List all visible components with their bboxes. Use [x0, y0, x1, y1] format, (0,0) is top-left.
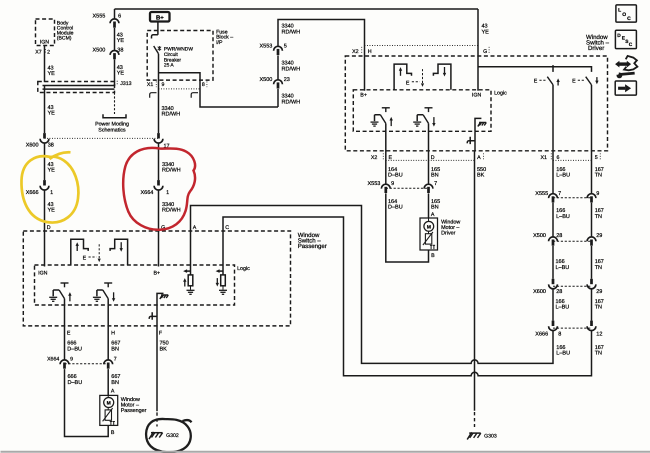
svg-text:RD/WH: RD/WH — [162, 168, 181, 174]
wire label 43 YE — [48, 162, 56, 174]
svg-text:B+: B+ — [360, 93, 367, 99]
X1 pin 8 terminal hook — [191, 93, 198, 98]
X2 bottom connector face dotted line — [386, 159, 474, 161]
svg-text:X1: X1 — [147, 82, 153, 88]
wire 750 BK inside passenger switch — [156, 305, 158, 326]
window motor driver box — [420, 218, 438, 250]
wire label 666 D-BU — [68, 374, 83, 386]
page bottom border line — [1, 451, 650, 453]
connector X600 row labels pins 38 and 17 — [26, 143, 170, 150]
svg-text:RD/WH: RD/WH — [282, 29, 301, 35]
connector X500 pin 38 labels — [93, 48, 124, 54]
svg-text:6: 6 — [118, 14, 121, 20]
passenger window lock contact — [149, 312, 157, 319]
svg-text:X500: X500 — [260, 77, 273, 83]
junction branch to pin 8 — [159, 73, 279, 107]
svg-text:PWR/WNDW: PWR/WNDW — [164, 47, 193, 53]
svg-text:E: E — [406, 80, 410, 86]
svg-text:YE: YE — [482, 29, 490, 35]
wire label 3340 RD/WH — [282, 94, 301, 106]
passenger up contact arrow — [76, 242, 79, 251]
wire label 43 YE — [482, 24, 490, 36]
BCM name label — [57, 21, 74, 42]
svg-text:D: D — [617, 33, 621, 39]
driver switch X1 bottom labels 6 5 — [541, 153, 601, 160]
wire label 43 YE — [48, 105, 56, 117]
window switch passenger name label — [298, 232, 327, 250]
fuse block label — [216, 29, 233, 46]
wire label 166 L-BU — [556, 345, 570, 357]
connector X500 pin 23 labels — [260, 77, 290, 83]
wire 750 BK passenger switch F to ground G302 — [156, 326, 158, 411]
passenger resistor A ground link — [190, 286, 192, 290]
inline connector X666 pin 8 — [549, 321, 558, 331]
svg-text:B: B — [111, 430, 115, 436]
passenger transistor 2 ground — [93, 297, 101, 301]
svg-text:D–BU: D–BU — [67, 346, 82, 352]
passenger motor terminal A label — [111, 388, 115, 394]
wire 43 YE to passenger switch D terminal — [44, 189, 46, 266]
svg-text:L: L — [618, 8, 621, 14]
svg-text:1: 1 — [50, 190, 53, 196]
splice pack J313 dashed box — [38, 82, 115, 93]
svg-text:X666: X666 — [26, 190, 39, 196]
driver output transistor 2 — [417, 108, 432, 124]
svg-text:E: E — [534, 79, 538, 85]
inline connector X553 pin 7 — [424, 184, 433, 193]
wire label 164 D-BU — [388, 199, 403, 211]
circuit breaker label PWR/WNDW 25 A — [164, 47, 193, 69]
svg-text:IGN: IGN — [472, 93, 482, 99]
passenger transistor 1 ground — [49, 297, 57, 301]
wire 167 TN driver switch pin 5 to X555 — [591, 85, 593, 194]
svg-text:7: 7 — [114, 357, 117, 363]
wire 3340 RD/WH to passenger switch G terminal — [158, 189, 160, 266]
svg-text:9: 9 — [162, 82, 165, 88]
wire 667 BN passenger switch H to X664 — [107, 299, 109, 361]
svg-text:YE: YE — [48, 111, 56, 117]
BCM IGN output label — [40, 40, 49, 46]
dashed ground lead — [474, 412, 476, 427]
svg-text:Breaker: Breaker — [164, 57, 181, 63]
svg-text:X555: X555 — [535, 191, 548, 197]
wire 667 BN X664 to passenger motor A — [107, 369, 109, 395]
svg-text:X600: X600 — [533, 289, 546, 295]
driver motor terminal B label — [431, 253, 435, 259]
wire 166 L-BU X555 to X500 — [552, 203, 554, 237]
wire 164 D-BU X553 to driver motor B — [386, 193, 429, 262]
wire label 3340 RD/WH — [162, 202, 181, 214]
inline connector X666 pin 1 — [40, 180, 49, 190]
svg-text:BK: BK — [477, 173, 485, 179]
svg-text:X2: X2 — [371, 155, 378, 161]
svg-text:C: C — [629, 42, 633, 48]
passenger switch IGN node label — [38, 271, 48, 277]
wire 43 YE between X555 and X500 — [114, 28, 116, 51]
svg-text:X600: X600 — [26, 143, 39, 149]
connector X555 pin 6 labels — [93, 14, 122, 20]
svg-text:E: E — [67, 330, 71, 336]
passenger sense resistor C left arrow — [216, 269, 223, 273]
connector X553 row labels pins 9 7 — [368, 181, 438, 187]
wire 666 D-BU X664 to passenger motor B — [65, 369, 109, 436]
reference label Power Moding Schematics — [95, 122, 129, 134]
connector X553 pin 5 labels — [260, 44, 287, 50]
svg-text:X500: X500 — [533, 233, 546, 239]
svg-text:BK: BK — [160, 346, 168, 352]
X555 connector pair dashed link — [553, 197, 592, 199]
X553 connector pair dashed link — [386, 187, 429, 189]
wire 550 BK inside driver switch — [474, 131, 476, 151]
svg-text:7: 7 — [434, 181, 437, 187]
svg-text:Driver: Driver — [441, 231, 456, 237]
splice pack J313 label — [117, 81, 131, 87]
X664 connector pair dashed link — [65, 363, 109, 365]
wire label 167 TN — [595, 299, 604, 311]
BCM connector X7 pin 2 labels — [35, 49, 50, 55]
svg-text:D: D — [47, 225, 51, 231]
wire label 165 BN — [431, 167, 440, 179]
repair procedure icon — [615, 56, 637, 78]
wire 166 L-BU X500 to X600 — [552, 246, 554, 279]
svg-text:C: C — [225, 225, 229, 231]
svg-text:L–BU: L–BU — [556, 173, 570, 179]
driver output transistor 1 — [375, 108, 390, 124]
wire 43 YE top feed from X555 to driver switch G terminal — [115, 8, 479, 10]
passenger logic chassis ground — [160, 295, 168, 299]
svg-text:H: H — [368, 49, 372, 55]
svg-text:Driver: Driver — [588, 45, 604, 52]
wire label 3340 RD/WH — [162, 162, 181, 174]
wire 165 BN driver switch D to X553 — [428, 123, 430, 184]
svg-text:D–BU: D–BU — [388, 173, 403, 179]
J313 bus bar upper — [43, 85, 115, 87]
svg-text:9: 9 — [596, 191, 599, 197]
wire label 166 L-BU — [556, 167, 570, 179]
ground G303 label — [484, 434, 497, 440]
passenger resistor C ground link — [222, 286, 224, 290]
inline connector X500 pin 23 — [274, 80, 283, 89]
svg-text:RD/WH: RD/WH — [162, 112, 181, 118]
passenger actuator dashed travel arrow — [98, 244, 101, 262]
inline connector X500 pin 29 — [587, 237, 596, 246]
inline connector X664 pin 7 — [104, 360, 113, 369]
wire label 3340 RD/WH — [162, 106, 181, 118]
inline connector X664 pin 1 — [154, 180, 163, 190]
inline connector X500 pin 28 — [549, 237, 558, 246]
svg-text:BN: BN — [431, 205, 439, 211]
driver switch X2 top connector labels H and G — [352, 47, 489, 55]
svg-text:B+: B+ — [156, 14, 164, 21]
svg-text:5: 5 — [284, 44, 287, 50]
svg-text:RD/WH: RD/WH — [162, 208, 181, 214]
svg-text:E: E — [572, 79, 576, 85]
svg-text:29: 29 — [596, 289, 602, 295]
X500 connector pair dashed link — [553, 240, 592, 242]
passenger switch B+ node label — [154, 271, 161, 277]
black pen loop around ground G302 — [146, 419, 191, 452]
forward arrow icon box — [615, 81, 636, 95]
passenger down contact symbol — [110, 239, 128, 265]
wire 166 L-BU X600 to X666 — [552, 288, 554, 321]
window motor passenger box — [100, 395, 118, 425]
svg-text:9: 9 — [70, 357, 73, 363]
svg-text:X553: X553 — [368, 181, 381, 187]
express contact 1 actuator E — [534, 79, 547, 85]
passenger motor terminal B label — [111, 430, 115, 436]
circuit breaker blade — [154, 46, 159, 54]
connector X555 row labels pins 7 9 — [535, 191, 599, 197]
driver logic ground chain corner — [475, 118, 481, 131]
svg-text:O: O — [622, 12, 626, 18]
fuse block I/P dashed box — [147, 31, 213, 81]
svg-text:YE: YE — [48, 208, 56, 214]
wire label 167 TN — [595, 208, 604, 220]
connector X666 pin 1 labels — [26, 190, 53, 196]
svg-text:23: 23 — [284, 77, 290, 83]
passenger switch bottom terminal labels E H F — [67, 330, 163, 336]
X600 connector pair dashed link — [553, 285, 592, 287]
wire 43 YE from J313 to X600 — [44, 86, 46, 134]
passenger motor brush contacts — [110, 422, 115, 425]
svg-text:TN: TN — [595, 214, 602, 220]
wire 43 YE X600 to X666 — [44, 142, 46, 180]
wire label 167 TN — [595, 259, 604, 271]
svg-text:8: 8 — [202, 82, 205, 88]
svg-text:D–BU: D–BU — [68, 380, 83, 386]
wire 43 YE from BCM X7-2 to J313 — [44, 46, 46, 83]
express contact 2 down arrow — [595, 77, 598, 84]
battery positive voltage tag B+ — [150, 12, 170, 22]
svg-text:2: 2 — [47, 50, 50, 56]
ground G303 chassis symbol — [467, 432, 481, 439]
X2 top connector face dotted line — [365, 45, 479, 47]
svg-text:YE: YE — [117, 71, 125, 77]
svg-text:BN: BN — [111, 380, 119, 386]
LOC icon box — [616, 5, 637, 22]
inline connector X666 pin 12 — [587, 321, 596, 331]
svg-text:L–BU: L–BU — [556, 305, 570, 311]
express contact 1 up arrow — [556, 78, 559, 85]
passenger resistor C down arrow — [216, 278, 219, 286]
svg-text:9: 9 — [391, 181, 394, 187]
passenger up contact symbol — [71, 239, 88, 265]
wire label 550 BK — [477, 167, 486, 179]
passenger resistor A ground — [187, 290, 195, 294]
driver switch logic dashed box — [353, 90, 491, 132]
svg-text:Logic: Logic — [237, 266, 250, 272]
driver motor symbol — [424, 221, 434, 231]
svg-text:RD/WH: RD/WH — [282, 66, 301, 72]
wire label 667 BN — [111, 374, 120, 386]
window switch driver dashed outline — [345, 56, 607, 151]
window switch driver name label — [586, 34, 610, 52]
passenger resistor C ground — [219, 290, 227, 294]
svg-text:G302: G302 — [166, 433, 179, 439]
svg-text:1: 1 — [166, 190, 169, 196]
svg-text:Passenger: Passenger — [298, 243, 327, 250]
wire 3340 RD/WH breaker output to fuse block pin 9 — [158, 54, 160, 133]
wire label 167 TN — [595, 345, 604, 357]
passenger motor symbol — [104, 398, 114, 408]
svg-text:YE: YE — [48, 71, 56, 77]
wire 166 L-BU driver switch pin 6 to X555 — [552, 85, 554, 194]
express contact 1 blade — [547, 77, 553, 85]
svg-text:Logic: Logic — [494, 91, 507, 97]
wire label 43 YE — [117, 32, 125, 44]
X600 harness dotted link — [45, 137, 159, 139]
svg-text:X500: X500 — [93, 48, 106, 54]
svg-text:A: A — [111, 388, 115, 394]
passenger switch terminal labels D G A C — [47, 225, 230, 231]
driver window lock contact — [467, 137, 475, 144]
wire label 167 TN — [595, 167, 604, 179]
svg-text:TN: TN — [595, 265, 602, 271]
driver up contact symbol — [394, 64, 411, 90]
svg-text:TN: TN — [595, 173, 602, 179]
wire 43 YE from X500 to J313 splice — [114, 60, 116, 87]
inline connector X555 pin 7 — [549, 194, 558, 203]
window switch passenger dashed outline — [23, 231, 290, 326]
driver actuator dashed travel arrow — [421, 69, 424, 87]
svg-text:M: M — [427, 225, 431, 231]
J313 bus bar lower — [43, 88, 115, 90]
connector X664 row labels pins 9 7 — [47, 357, 117, 363]
svg-text:(BCM): (BCM) — [57, 36, 72, 42]
driver switch IGN node label — [472, 93, 482, 99]
driver motor thermal protector — [423, 232, 433, 245]
wire label 166 L-BU — [556, 299, 570, 311]
svg-text:L–BU: L–BU — [556, 351, 570, 357]
passenger resistor A up arrow — [183, 278, 186, 286]
wire 43 YE down to driver switch IGN — [477, 9, 479, 91]
svg-text:X1: X1 — [541, 155, 548, 161]
driver down contact arrow — [443, 67, 446, 77]
wire label 164 D-BU — [388, 167, 403, 179]
driver down contact symbol — [433, 64, 451, 90]
svg-text:A: A — [477, 155, 481, 161]
driver transistor 1 up arrow — [390, 117, 393, 126]
express contact 1 stub — [552, 65, 554, 72]
X1 connector face dotted line — [159, 88, 201, 90]
driver switch supply feed wire — [478, 67, 592, 72]
passenger logic ground chain corner — [157, 293, 164, 305]
svg-text:38: 38 — [48, 143, 54, 149]
svg-text:I/P: I/P — [216, 40, 223, 46]
driver switch X2 bottom labels E D A — [371, 153, 484, 160]
DESC icon box — [615, 30, 636, 48]
svg-text:YE: YE — [117, 38, 125, 44]
driver transistor 1 ground — [371, 122, 379, 126]
passenger output transistor 2 — [97, 283, 112, 299]
passenger transistor 2 down arrow — [112, 292, 115, 302]
passenger logic label — [237, 266, 250, 272]
passenger motor link wires — [107, 395, 109, 410]
svg-text:Circuit: Circuit — [164, 52, 178, 58]
driver logic label — [494, 91, 507, 97]
svg-text:25 A: 25 A — [164, 63, 175, 69]
svg-text:TN: TN — [595, 305, 602, 311]
window motor passenger name label — [121, 397, 147, 414]
driver up contact arrow — [399, 67, 402, 76]
wire 3340 RD/WH riser to driver switch B+ (X2-H) — [278, 20, 365, 108]
svg-text:X666: X666 — [535, 331, 548, 337]
wire label 750 BK — [160, 341, 169, 353]
svg-text:X553: X553 — [260, 44, 273, 50]
yellow highlighter loop around X666 connector — [21, 152, 78, 222]
wire label 166 L-BU — [556, 208, 570, 220]
wire 166 L-BU X666 to passenger switch A with hop over 550 BK — [191, 206, 554, 364]
connector X664 pin 1 labels — [141, 190, 170, 196]
driver contact actuator E dashed — [406, 80, 420, 86]
inline connector X600 pin 29 — [587, 279, 596, 289]
wire 167 TN X600 to X666 — [591, 288, 593, 321]
express contact 2 actuator E — [572, 79, 585, 85]
circuit breaker top contact hook — [151, 35, 157, 39]
svg-text:28: 28 — [556, 289, 562, 295]
inline connector X600 pin 17 — [154, 133, 163, 143]
X666 connector pair dashed link — [553, 327, 592, 329]
off-page bracket — [103, 114, 126, 118]
red pen loop around X664 connector — [123, 148, 195, 230]
wire label 667 BN — [111, 341, 120, 353]
wire from B+ tag into fuse block — [157, 22, 159, 35]
driver motor terminal A label — [431, 212, 435, 218]
driver logic chassis ground — [478, 122, 486, 126]
svg-text:X2: X2 — [352, 49, 359, 55]
X1 bottom connector face dotted line — [553, 159, 592, 161]
connector X666 row labels pins 8 12 — [535, 331, 602, 337]
driver transistor 2 ground — [413, 122, 421, 126]
svg-text:X555: X555 — [93, 14, 106, 20]
svg-text:B: B — [431, 253, 435, 259]
dashed reference wire to power moding schematics — [114, 93, 116, 115]
wire 167 TN X500 to X600 — [591, 246, 593, 279]
driver motor link wires — [428, 218, 430, 234]
body control module (BCM) dashed box — [36, 19, 55, 46]
svg-text:X664: X664 — [47, 357, 59, 363]
svg-text:X7: X7 — [35, 50, 41, 56]
wire 43 YE from top line down to X555 connector — [114, 9, 116, 19]
inline connector X555 pin 6 — [110, 19, 119, 28]
svg-text:M: M — [107, 401, 111, 407]
svg-text:BN: BN — [431, 173, 439, 179]
svg-text:E: E — [83, 256, 87, 262]
X1 pin 9 terminal hook — [150, 93, 157, 98]
passenger transistor 1 up arrow — [68, 292, 71, 301]
dashed ground lead G302 — [156, 412, 158, 426]
passenger switch logic dashed box — [35, 265, 235, 305]
wire label 3340 RD/WH — [282, 61, 301, 73]
wire 167 TN X555 to X500 — [591, 203, 593, 237]
inline connector X500 pin 38 — [110, 51, 119, 60]
svg-text:Schematics: Schematics — [98, 127, 126, 133]
svg-text:J313: J313 — [120, 81, 131, 87]
inline connector X553 pin 9 — [381, 184, 390, 193]
svg-text:A: A — [193, 225, 197, 231]
window motor driver name label — [441, 220, 460, 237]
passenger sense resistor C — [221, 275, 226, 286]
svg-text:G303: G303 — [484, 434, 497, 440]
svg-text:TN: TN — [595, 351, 602, 357]
svg-text:D–BU: D–BU — [388, 205, 403, 211]
wire label 43 YE — [48, 65, 56, 77]
inline connector X555 pin 9 — [587, 194, 596, 203]
passenger down contact arrow — [120, 242, 123, 252]
wire 165 BN X553 to driver motor A — [428, 193, 430, 218]
wire label 3340 RD/WH — [282, 24, 301, 36]
svg-text:8: 8 — [558, 331, 561, 337]
